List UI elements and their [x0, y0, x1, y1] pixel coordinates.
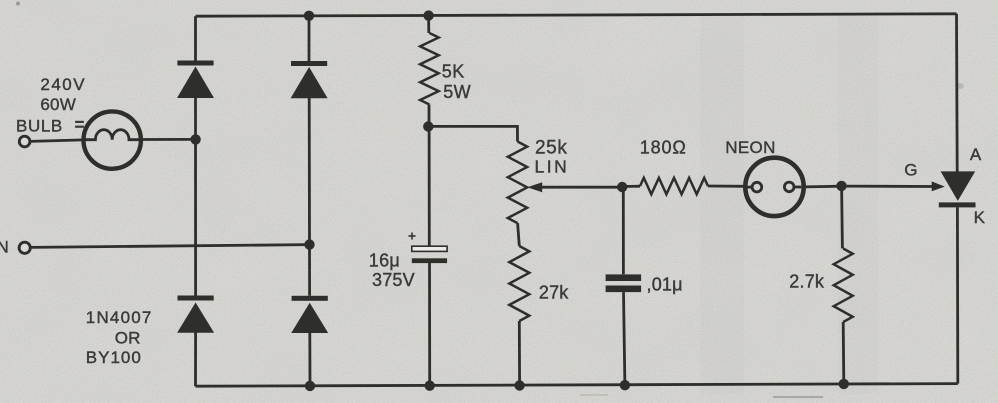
svg-text:2.7k: 2.7k — [789, 271, 825, 291]
svg-text:5K: 5K — [442, 61, 465, 81]
svg-text:A: A — [970, 145, 982, 164]
svg-text:25k: 25k — [535, 137, 567, 158]
svg-text:BY100: BY100 — [86, 348, 142, 367]
svg-text:OR: OR — [115, 328, 141, 347]
svg-text:180Ω: 180Ω — [640, 138, 687, 158]
svg-text:LIN: LIN — [535, 157, 570, 177]
svg-text:375V: 375V — [372, 270, 415, 290]
svg-text:K: K — [974, 208, 986, 227]
svg-text:1N4007: 1N4007 — [86, 308, 153, 327]
svg-text:BULB: BULB — [16, 117, 63, 136]
svg-text:G: G — [904, 161, 917, 180]
svg-text:240V: 240V — [40, 75, 86, 94]
svg-text:5W: 5W — [443, 82, 471, 102]
svg-text:16μ: 16μ — [369, 250, 400, 270]
svg-text:27k: 27k — [539, 282, 569, 302]
svg-text:NEON: NEON — [725, 138, 776, 157]
svg-text:,01μ: ,01μ — [647, 275, 683, 295]
svg-text:60W: 60W — [40, 95, 76, 114]
svg-text:N: N — [0, 238, 9, 257]
